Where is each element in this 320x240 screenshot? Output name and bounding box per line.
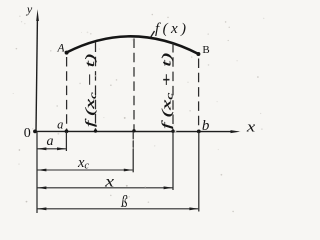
svg-text:x: x <box>246 118 256 135</box>
svg-text:b: b <box>202 118 210 134</box>
svg-text:ß: ß <box>120 194 128 212</box>
svg-text:f (xc − t): f (xc − t) <box>82 54 98 127</box>
svg-text:a: a <box>57 118 63 132</box>
svg-text:x: x <box>104 172 114 190</box>
svg-text:A: A <box>56 43 65 55</box>
svg-text:y: y <box>26 2 33 16</box>
svg-text:f(x): f(x) <box>155 21 189 37</box>
svg-text:B: B <box>202 44 209 56</box>
svg-text:a: a <box>47 134 54 149</box>
svg-text:0: 0 <box>24 126 31 141</box>
svg-text:f (xc + t): f (xc + t) <box>159 53 175 129</box>
